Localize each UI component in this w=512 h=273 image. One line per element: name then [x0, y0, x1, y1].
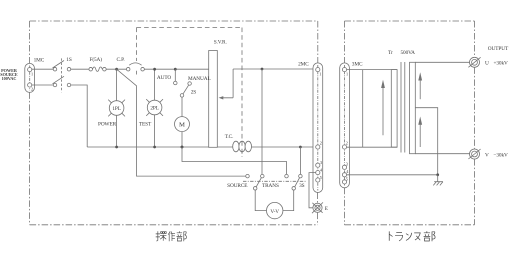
svg-text:M: M — [179, 121, 185, 128]
selector switch 3S pole2 — [285, 174, 289, 178]
svg-text:+30kV: +30kV — [494, 61, 509, 67]
svg-text:C.P.: C.P. — [117, 57, 125, 63]
transformer section border (dash-dot box トランス部) — [345, 21, 475, 225]
svg-text:2S: 2S — [191, 89, 197, 95]
svg-text:V: V — [485, 152, 489, 158]
circuit protector C.P. — [126, 67, 130, 71]
secondary winding — [410, 62, 416, 153]
voltmeter V-V — [255, 190, 266, 210]
operation section border (dash-dot box 操作部) — [30, 21, 318, 225]
svg-text:E: E — [325, 206, 328, 212]
section label トランス部 — [389, 231, 435, 241]
svg-text:2: 2 — [346, 140, 348, 145]
svg-text:POWER: POWER — [98, 121, 117, 127]
fuse F(5A) — [89, 67, 93, 71]
output wire to 2MC-1 — [233, 68, 316, 70]
wire L2 down and bus — [71, 85, 87, 147]
pilot lamp 2PL — [146, 99, 163, 116]
svg-text:1S: 1S — [66, 57, 72, 63]
svg-text:2MC: 2MC — [298, 61, 309, 67]
switch 1S pole2 — [53, 83, 57, 87]
selector switch 3S pole1 — [246, 174, 250, 178]
svg-text:T.C.: T.C. — [225, 134, 234, 140]
core — [401, 62, 405, 153]
selector switch 2S — [174, 68, 177, 71]
bus wire — [87, 146, 315, 148]
pilot lamp 1PL — [108, 100, 125, 117]
earth ground symbol — [433, 175, 443, 185]
3S mechanical link — [243, 180, 306, 182]
motor M — [181, 97, 183, 116]
V output wire — [415, 153, 469, 155]
transformer Tr primary wires — [347, 69, 398, 71]
svg-text:OUTPUT: OUTPUT — [488, 46, 509, 52]
svg-text:1PL: 1PL — [112, 106, 121, 112]
svg-text:3S: 3S — [299, 183, 305, 189]
ground wire from 3MC-4 — [347, 174, 438, 176]
svg-text:1MC: 1MC — [34, 58, 45, 64]
svg-text:AUTO: AUTO — [157, 75, 171, 81]
secondary arrows — [419, 80, 421, 100]
svg-text:2: 2 — [31, 87, 33, 92]
S.V.R. assembly dashed boundary — [137, 28, 243, 158]
primary winding — [391, 70, 397, 148]
svg-text:U: U — [485, 61, 489, 67]
svg-text:5: 5 — [320, 175, 322, 180]
svg-text:2PL: 2PL — [150, 106, 159, 112]
wire junction to SOURCE contact (diagonal, crosses bus) — [117, 69, 246, 176]
node after fuse — [115, 68, 118, 71]
svg-text:3: 3 — [346, 162, 348, 167]
svg-text:MANUAL: MANUAL — [188, 76, 211, 82]
svg-text:1: 1 — [31, 72, 33, 77]
switch 1S pole1 — [53, 67, 57, 71]
coil T.C. — [233, 141, 239, 152]
terminal strip 3MC — [340, 63, 350, 188]
svg-text:SOURCE: SOURCE — [227, 183, 247, 189]
svg-text:100VAC: 100VAC — [2, 76, 17, 81]
svg-text:Tr: Tr — [388, 50, 393, 56]
svg-text:V-V: V-V — [270, 209, 279, 215]
1S mechanical link — [60, 58, 62, 92]
output terminal V — [470, 149, 480, 159]
svg-text:3: 3 — [320, 160, 322, 165]
svg-text:1: 1 — [346, 72, 348, 77]
slide voltage regulator S.V.R. — [209, 51, 218, 148]
svg-text:3MC: 3MC — [352, 61, 363, 67]
wire TRANS contact — [261, 69, 263, 174]
wire bus to 3S pole2 left — [181, 146, 184, 149]
svg-text:−30kV: −30kV — [494, 152, 509, 158]
svg-text:F(5A): F(5A) — [90, 56, 103, 63]
wire 2MC-4 to earth terminal E — [309, 173, 316, 208]
wire fuse to C.P. — [106, 68, 126, 70]
svg-text:TRANS: TRANS — [262, 183, 279, 189]
center tap wire — [415, 108, 437, 175]
svg-text:500VA: 500VA — [401, 50, 416, 56]
output terminal U — [470, 57, 480, 67]
earth terminal E — [313, 203, 322, 212]
svg-text:TEST: TEST — [139, 121, 152, 127]
wire L1 from 1MC to 1S — [32, 68, 53, 70]
wire C.P. to S.V.R. — [145, 68, 209, 70]
primary arrow — [382, 87, 384, 135]
svg-text:S.V.R.: S.V.R. — [214, 40, 227, 46]
wire L2 from 1MC to 1S pole2 — [32, 84, 53, 86]
svg-text:1: 1 — [319, 72, 321, 77]
svg-text:2: 2 — [320, 140, 322, 145]
U output wire — [415, 61, 469, 63]
svg-text:5: 5 — [346, 177, 348, 182]
wire bus to 3S pole2 right — [299, 146, 302, 149]
S.V.R. wiper arrow — [223, 69, 234, 98]
section label 操作部 — [156, 231, 187, 241]
connector 1MC — [25, 63, 35, 92]
wire 1S to fuse — [71, 68, 89, 70]
terminal strip 2MC — [313, 63, 323, 193]
